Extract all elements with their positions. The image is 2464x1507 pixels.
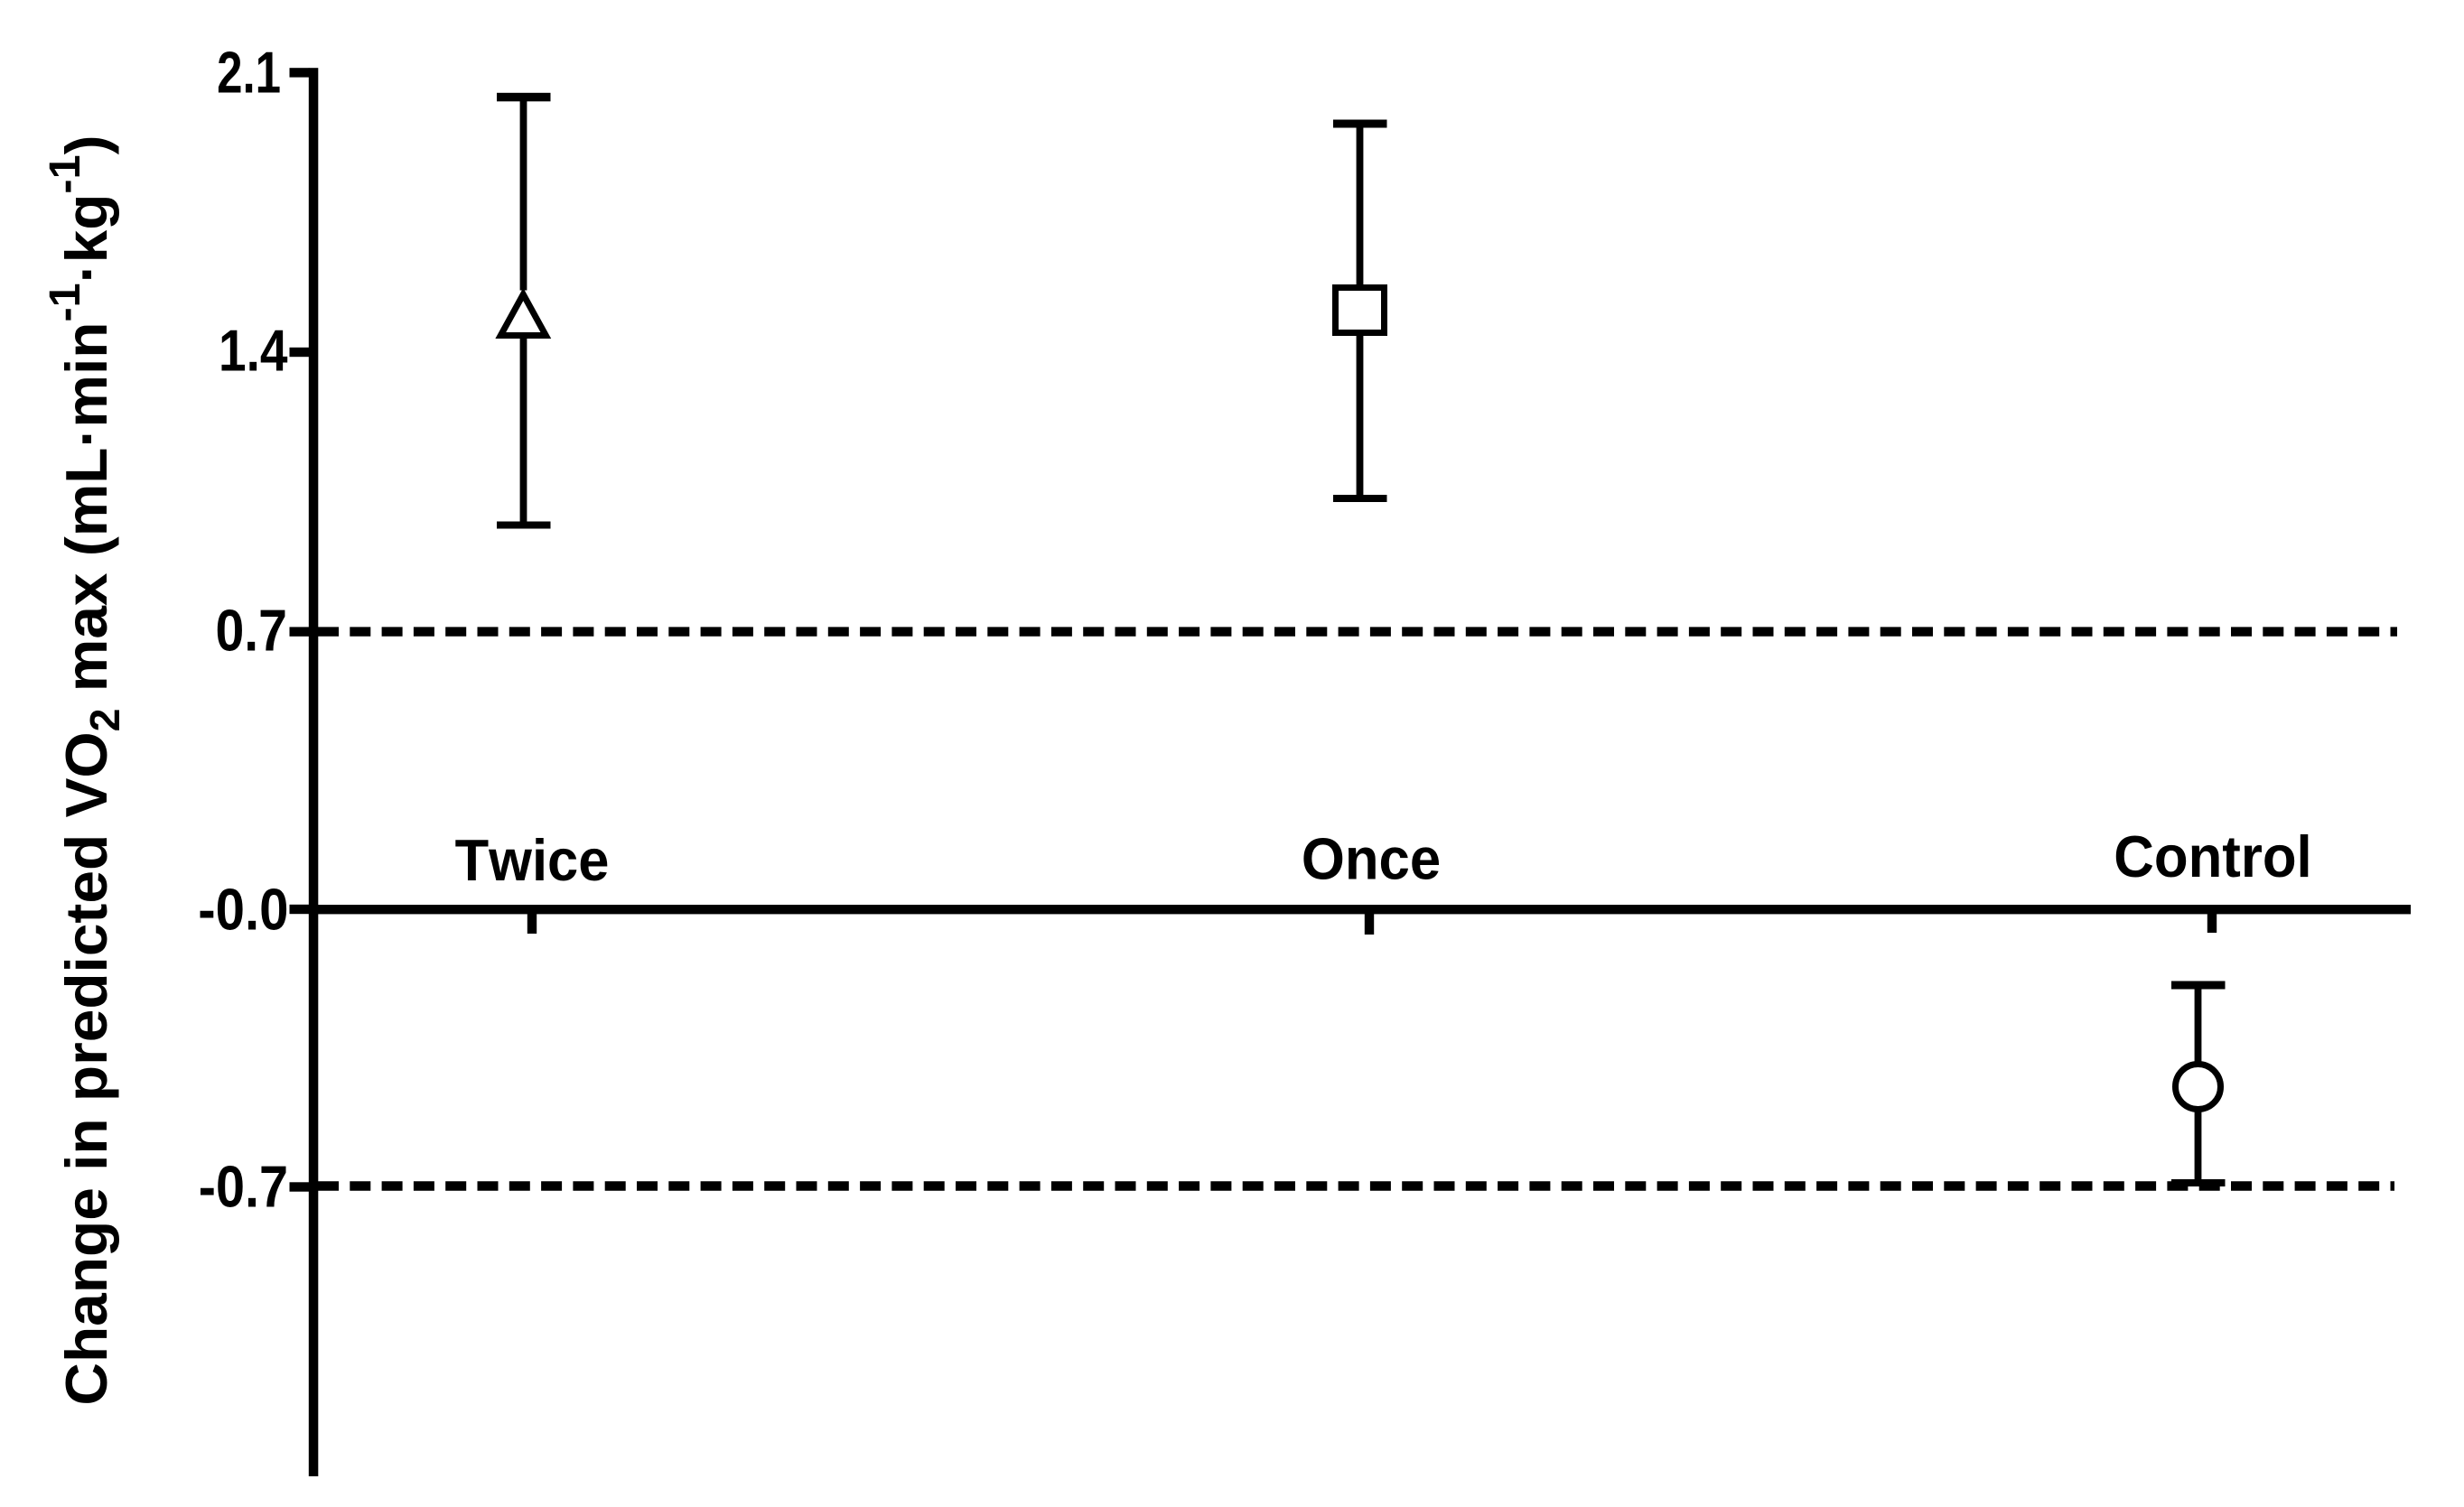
y-tick 1.4: [290, 348, 310, 357]
error bar Control: upper segment: [2195, 985, 2202, 1064]
dashed line +0.7: [318, 627, 2397, 636]
y-tick 2.1: [290, 68, 310, 77]
error bar Twice: lower segment: [520, 332, 527, 526]
marker circle Control: [2176, 1065, 2221, 1110]
y-tick 0.7: [290, 627, 310, 636]
error bar Once: bottom cap: [1333, 495, 1387, 502]
svg-text:Once: Once: [1302, 827, 1441, 892]
error bar Control: bottom cap: [2171, 1179, 2226, 1186]
svg-text:1.4: 1.4: [219, 317, 288, 383]
y-axis: [309, 68, 319, 1476]
svg-text:Change in predicted VO2 max (m: Change in predicted VO2 max (mL·min-1·kg…: [41, 135, 128, 1405]
x-tick Control: [2207, 910, 2217, 933]
y-tick -0.7: [290, 1182, 310, 1191]
dashed line -0.7: [318, 1181, 2394, 1190]
error bar Control: lower segment: [2195, 1110, 2202, 1183]
error bar Once: upper segment: [1357, 124, 1364, 287]
error bar Once: lower segment: [1357, 333, 1364, 498]
svg-text:2.1: 2.1: [217, 41, 281, 106]
error bar Once: top cap: [1333, 120, 1387, 128]
error bar Twice: bottom cap: [497, 522, 551, 529]
svg-text:Control: Control: [2114, 825, 2311, 890]
svg-text:-0.0: -0.0: [198, 878, 288, 944]
x-tick Once: [1365, 910, 1374, 935]
marker square Once: [1336, 288, 1385, 333]
svg-text:0.7: 0.7: [215, 598, 287, 663]
error bar Twice: upper segment: [520, 98, 527, 291]
marker triangle Twice: [500, 294, 546, 336]
y-tick -0.0: [290, 905, 310, 914]
error bar Control: top cap: [2171, 981, 2226, 990]
svg-text:-0.7: -0.7: [199, 1154, 288, 1220]
svg-text:Twice: Twice: [455, 828, 610, 893]
error bar Twice: top cap: [497, 93, 551, 102]
x-axis: [309, 905, 2411, 914]
x-tick Twice: [527, 910, 537, 934]
